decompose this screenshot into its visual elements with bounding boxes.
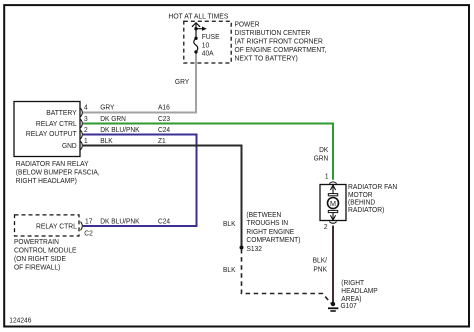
svg-text:3: 3: [84, 114, 88, 123]
svg-text:C24: C24: [158, 217, 170, 226]
svg-text:DK BLU/PNK: DK BLU/PNK: [100, 217, 139, 226]
svg-text:HOT AT ALL TIMES: HOT AT ALL TIMES: [168, 12, 228, 21]
svg-text:2: 2: [324, 222, 328, 231]
svg-text:GND: GND: [62, 141, 77, 150]
svg-text:BATTERY: BATTERY: [46, 108, 77, 117]
svg-text:4: 4: [84, 103, 88, 112]
svg-text:RELAY CTRL: RELAY CTRL: [36, 119, 77, 128]
svg-text:BLK: BLK: [223, 219, 236, 228]
svg-text:Z1: Z1: [158, 136, 166, 145]
svg-text:2: 2: [84, 125, 88, 134]
svg-text:G107: G107: [341, 301, 357, 310]
svg-text:RADIATOR): RADIATOR): [348, 205, 384, 214]
svg-text:BLK: BLK: [100, 136, 113, 145]
svg-text:NEXT TO BATTERY): NEXT TO BATTERY): [235, 54, 298, 63]
svg-text:BLK: BLK: [223, 265, 236, 274]
svg-text:DK BLU/PNK: DK BLU/PNK: [100, 125, 139, 134]
svg-text:RELAY CTRL: RELAY CTRL: [36, 222, 77, 231]
svg-text:C23: C23: [158, 114, 170, 123]
svg-text:C24: C24: [158, 125, 170, 134]
svg-text:RIGHT HEADLAMP): RIGHT HEADLAMP): [16, 176, 77, 185]
svg-text:40A: 40A: [202, 49, 214, 58]
svg-text:C2: C2: [84, 229, 93, 238]
svg-text:GRY: GRY: [175, 77, 189, 86]
svg-text:GRY: GRY: [100, 103, 114, 112]
svg-text:S132: S132: [247, 244, 263, 253]
svg-text:RELAY OUTPUT: RELAY OUTPUT: [26, 129, 77, 138]
svg-text:124246: 124246: [9, 315, 31, 324]
svg-text:1: 1: [325, 171, 329, 180]
svg-text:DK GRN: DK GRN: [100, 114, 126, 123]
svg-text:A16: A16: [158, 103, 170, 112]
svg-text:BLK/: BLK/: [313, 256, 328, 265]
svg-text:OF FIREWALL): OF FIREWALL): [14, 262, 60, 271]
svg-text:M: M: [330, 199, 336, 208]
svg-text:GRN: GRN: [314, 153, 329, 162]
svg-text:1: 1: [84, 136, 88, 145]
svg-text:PNK: PNK: [313, 265, 327, 274]
svg-text:COMPARTMENT): COMPARTMENT): [246, 235, 300, 244]
svg-text:17: 17: [85, 217, 92, 226]
